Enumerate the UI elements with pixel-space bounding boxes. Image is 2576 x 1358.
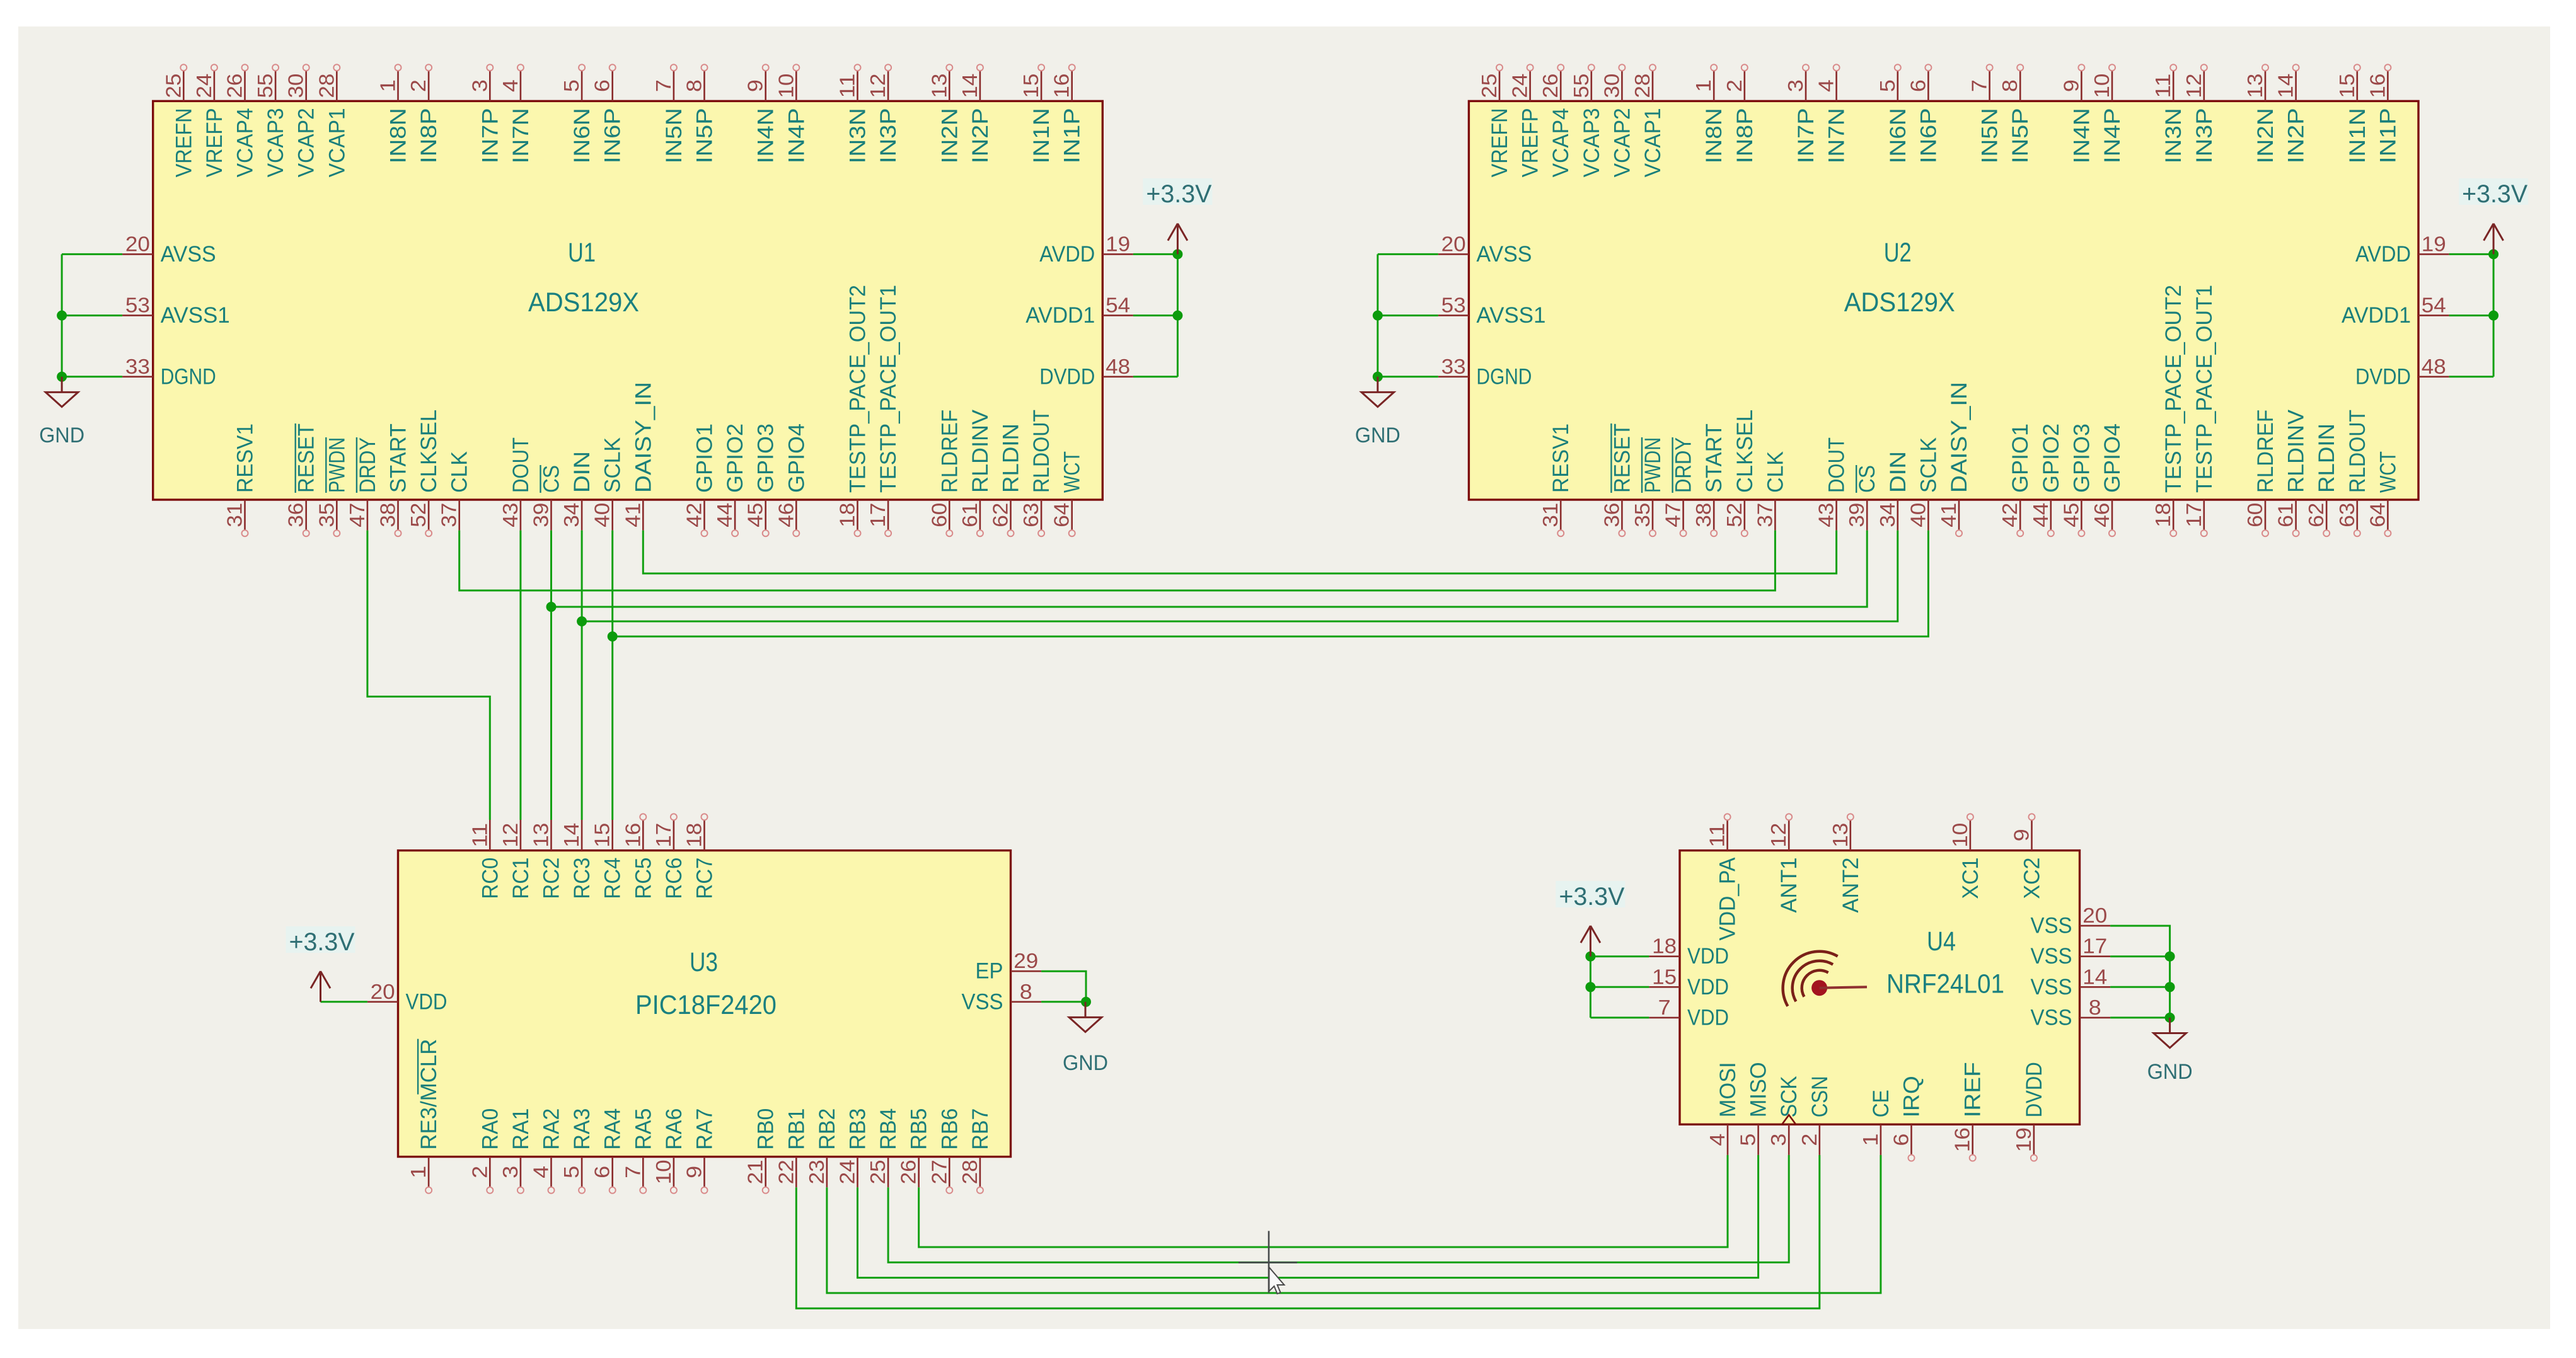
svg-text:10: 10 bbox=[1948, 823, 1972, 848]
svg-text:46: 46 bbox=[774, 503, 797, 527]
svg-text:SCLK: SCLK bbox=[1916, 437, 1941, 493]
svg-text:53: 53 bbox=[1441, 294, 1466, 317]
svg-text:17: 17 bbox=[866, 503, 889, 527]
svg-text:VREFP: VREFP bbox=[202, 108, 227, 177]
svg-text:RB6: RB6 bbox=[937, 1108, 962, 1150]
svg-text:2: 2 bbox=[1798, 1134, 1821, 1146]
svg-text:30: 30 bbox=[284, 74, 308, 98]
svg-text:RA3: RA3 bbox=[570, 1108, 594, 1150]
svg-text:63: 63 bbox=[1019, 503, 1043, 527]
svg-text:ANT1: ANT1 bbox=[1777, 858, 1801, 913]
svg-text:IN3P: IN3P bbox=[876, 108, 901, 163]
svg-text:6: 6 bbox=[1906, 79, 1929, 92]
svg-text:IN1P: IN1P bbox=[1060, 108, 1085, 163]
svg-text:PWDN: PWDN bbox=[325, 437, 349, 493]
svg-text:VCAP1: VCAP1 bbox=[1641, 108, 1665, 177]
svg-text:42: 42 bbox=[683, 503, 706, 527]
svg-text:TESTP_PACE_OUT1: TESTP_PACE_OUT1 bbox=[2192, 285, 2217, 493]
svg-text:40: 40 bbox=[591, 503, 614, 527]
svg-text:12: 12 bbox=[2182, 74, 2205, 98]
svg-text:XC2: XC2 bbox=[2020, 858, 2045, 899]
svg-text:VCAP3: VCAP3 bbox=[263, 108, 288, 177]
svg-text:U2: U2 bbox=[1884, 238, 1912, 268]
svg-text:RLDREF: RLDREF bbox=[937, 410, 962, 493]
svg-text:IN8N: IN8N bbox=[1702, 108, 1726, 163]
svg-text:3: 3 bbox=[468, 79, 491, 92]
svg-text:17: 17 bbox=[652, 823, 675, 848]
svg-text:62: 62 bbox=[2304, 503, 2328, 527]
svg-text:GPIO3: GPIO3 bbox=[2069, 423, 2094, 493]
svg-text:RA2: RA2 bbox=[540, 1108, 564, 1150]
svg-text:19: 19 bbox=[2012, 1127, 2035, 1152]
svg-text:IN8N: IN8N bbox=[386, 108, 411, 163]
svg-text:VDD: VDD bbox=[1687, 975, 1729, 999]
svg-text:IN1P: IN1P bbox=[2376, 108, 2400, 163]
svg-text:64: 64 bbox=[1050, 503, 1073, 527]
svg-text:2: 2 bbox=[1723, 79, 1746, 92]
svg-text:AVDD1: AVDD1 bbox=[2342, 303, 2411, 328]
svg-text:RLDREF: RLDREF bbox=[2253, 410, 2278, 493]
svg-text:10: 10 bbox=[652, 1159, 675, 1184]
svg-text:RA0: RA0 bbox=[478, 1108, 502, 1150]
svg-text:6: 6 bbox=[591, 79, 614, 92]
svg-text:GPIO2: GPIO2 bbox=[2039, 423, 2064, 493]
svg-text:24: 24 bbox=[192, 74, 216, 98]
svg-text:9: 9 bbox=[683, 1166, 706, 1178]
svg-text:42: 42 bbox=[1998, 503, 2021, 527]
svg-text:GND: GND bbox=[2147, 1060, 2193, 1084]
svg-text:54: 54 bbox=[1106, 294, 1130, 317]
svg-text:GPIO4: GPIO4 bbox=[2100, 423, 2125, 493]
svg-text:RESET: RESET bbox=[294, 423, 319, 493]
svg-text:GND: GND bbox=[39, 423, 84, 447]
svg-text:61: 61 bbox=[958, 503, 981, 527]
svg-text:RESV1: RESV1 bbox=[233, 423, 258, 493]
svg-text:31: 31 bbox=[1539, 503, 1562, 527]
svg-text:DVDD: DVDD bbox=[2022, 1062, 2047, 1117]
svg-text:26: 26 bbox=[1539, 74, 1562, 98]
svg-text:AVSS: AVSS bbox=[161, 242, 216, 267]
svg-text:VDD_PA: VDD_PA bbox=[1716, 857, 1740, 941]
svg-text:17: 17 bbox=[2082, 935, 2107, 958]
svg-text:17: 17 bbox=[2182, 503, 2205, 527]
svg-text:IN7P: IN7P bbox=[478, 108, 502, 163]
svg-text:DRDY: DRDY bbox=[355, 437, 380, 493]
svg-text:4: 4 bbox=[1706, 1134, 1729, 1146]
svg-text:8: 8 bbox=[1020, 980, 1032, 1003]
svg-text:19: 19 bbox=[1106, 232, 1130, 255]
svg-text:NRF24L01: NRF24L01 bbox=[1886, 969, 2004, 999]
svg-text:RE3/MCLR: RE3/MCLR bbox=[417, 1039, 441, 1150]
svg-text:11: 11 bbox=[2151, 74, 2175, 98]
svg-text:MOSI: MOSI bbox=[1716, 1062, 1740, 1117]
svg-text:45: 45 bbox=[2059, 503, 2082, 527]
svg-text:RB2: RB2 bbox=[815, 1108, 840, 1150]
svg-text:14: 14 bbox=[2082, 965, 2107, 988]
svg-text:4: 4 bbox=[499, 79, 522, 92]
svg-text:DOUT: DOUT bbox=[1825, 437, 1849, 493]
svg-text:26: 26 bbox=[223, 74, 246, 98]
svg-text:VDD: VDD bbox=[1687, 944, 1729, 969]
svg-text:GPIO3: GPIO3 bbox=[754, 423, 778, 493]
svg-text:CS: CS bbox=[540, 465, 564, 493]
svg-text:7: 7 bbox=[1968, 79, 1991, 92]
svg-text:41: 41 bbox=[1937, 503, 1960, 527]
svg-text:MISO: MISO bbox=[1747, 1062, 1771, 1117]
svg-text:DIN: DIN bbox=[570, 451, 594, 493]
svg-text:28: 28 bbox=[315, 74, 338, 98]
svg-text:24: 24 bbox=[836, 1159, 859, 1184]
svg-text:16: 16 bbox=[1050, 74, 1073, 98]
svg-text:XC1: XC1 bbox=[1958, 858, 1983, 899]
svg-text:RC5: RC5 bbox=[631, 858, 656, 899]
svg-text:PIC18F2420: PIC18F2420 bbox=[635, 990, 777, 1020]
svg-text:60: 60 bbox=[927, 503, 950, 527]
svg-text:CLK: CLK bbox=[448, 451, 472, 493]
svg-text:IN7P: IN7P bbox=[1794, 108, 1818, 163]
svg-text:IN8P: IN8P bbox=[1733, 108, 1757, 163]
svg-text:36: 36 bbox=[1600, 503, 1623, 527]
svg-text:RESET: RESET bbox=[1610, 423, 1634, 493]
svg-text:WCT: WCT bbox=[2376, 451, 2400, 493]
svg-text:61: 61 bbox=[2274, 503, 2297, 527]
svg-text:38: 38 bbox=[376, 503, 400, 527]
svg-text:RB0: RB0 bbox=[754, 1108, 778, 1150]
svg-text:ADS129X: ADS129X bbox=[528, 287, 639, 318]
svg-text:VREFP: VREFP bbox=[1518, 108, 1543, 177]
svg-text:18: 18 bbox=[683, 823, 706, 848]
svg-text:11: 11 bbox=[836, 74, 859, 98]
svg-text:28: 28 bbox=[958, 1159, 981, 1184]
svg-text:U3: U3 bbox=[690, 947, 718, 977]
svg-text:VSS: VSS bbox=[2031, 975, 2072, 999]
svg-text:IN4N: IN4N bbox=[2069, 108, 2094, 163]
svg-text:64: 64 bbox=[2365, 503, 2389, 527]
svg-text:1: 1 bbox=[1859, 1134, 1882, 1146]
svg-text:13: 13 bbox=[927, 74, 950, 98]
svg-text:+3.3V: +3.3V bbox=[1146, 180, 1211, 208]
svg-text:IN6N: IN6N bbox=[1886, 108, 1910, 163]
svg-text:6: 6 bbox=[591, 1166, 614, 1178]
svg-text:RA7: RA7 bbox=[693, 1108, 717, 1150]
svg-text:RESV1: RESV1 bbox=[1549, 423, 1573, 493]
svg-text:35: 35 bbox=[315, 503, 338, 527]
svg-text:RC3: RC3 bbox=[570, 858, 594, 899]
svg-text:ANT2: ANT2 bbox=[1839, 858, 1863, 913]
svg-text:16: 16 bbox=[2365, 74, 2389, 98]
svg-text:SCLK: SCLK bbox=[601, 437, 625, 493]
svg-text:40: 40 bbox=[1906, 503, 1929, 527]
svg-text:RLDIN: RLDIN bbox=[999, 423, 1024, 493]
svg-text:VDD: VDD bbox=[406, 989, 448, 1014]
svg-text:VCAP2: VCAP2 bbox=[1610, 108, 1634, 177]
svg-text:RA6: RA6 bbox=[662, 1108, 686, 1150]
svg-text:RB1: RB1 bbox=[784, 1108, 809, 1150]
svg-text:20: 20 bbox=[125, 232, 150, 255]
svg-text:VSS: VSS bbox=[2031, 944, 2072, 969]
svg-text:16: 16 bbox=[1951, 1127, 1974, 1152]
svg-text:DVDD: DVDD bbox=[1039, 364, 1095, 389]
svg-text:VCAP1: VCAP1 bbox=[325, 108, 349, 177]
svg-text:AVDD1: AVDD1 bbox=[1025, 303, 1095, 328]
svg-text:12: 12 bbox=[866, 74, 889, 98]
svg-text:IN7N: IN7N bbox=[509, 108, 533, 163]
svg-text:43: 43 bbox=[1815, 503, 1838, 527]
svg-text:IN6P: IN6P bbox=[601, 108, 625, 163]
svg-text:9: 9 bbox=[744, 79, 767, 92]
svg-text:37: 37 bbox=[1753, 503, 1776, 527]
svg-text:VREFN: VREFN bbox=[1487, 108, 1512, 177]
svg-text:19: 19 bbox=[2422, 232, 2446, 255]
svg-text:IN5P: IN5P bbox=[693, 108, 717, 163]
svg-text:RB7: RB7 bbox=[968, 1108, 993, 1150]
svg-text:GPIO1: GPIO1 bbox=[2008, 423, 2033, 493]
svg-text:13: 13 bbox=[529, 823, 553, 848]
svg-text:VCAP4: VCAP4 bbox=[233, 108, 258, 177]
svg-text:IN5N: IN5N bbox=[1978, 108, 2002, 163]
svg-text:RC7: RC7 bbox=[693, 858, 717, 899]
svg-text:VSS: VSS bbox=[2031, 914, 2072, 938]
svg-text:39: 39 bbox=[1845, 503, 1868, 527]
svg-text:CE: CE bbox=[1869, 1090, 1893, 1117]
svg-text:7: 7 bbox=[621, 1166, 644, 1178]
svg-text:ADS129X: ADS129X bbox=[1844, 287, 1955, 318]
svg-text:41: 41 bbox=[621, 503, 644, 527]
svg-text:PWDN: PWDN bbox=[1641, 437, 1665, 493]
svg-text:U4: U4 bbox=[1927, 926, 1956, 957]
svg-text:IN7N: IN7N bbox=[1825, 108, 1849, 163]
svg-text:7: 7 bbox=[1658, 996, 1671, 1019]
svg-text:DAISY_IN: DAISY_IN bbox=[1947, 382, 1972, 493]
svg-text:1: 1 bbox=[407, 1166, 430, 1178]
svg-text:IN4P: IN4P bbox=[784, 108, 809, 163]
svg-text:RC4: RC4 bbox=[601, 858, 625, 899]
svg-text:START: START bbox=[386, 423, 411, 493]
svg-text:VDD: VDD bbox=[1687, 1005, 1729, 1030]
svg-text:9: 9 bbox=[2059, 79, 2082, 92]
svg-text:34: 34 bbox=[1876, 503, 1899, 527]
svg-text:IN1N: IN1N bbox=[2345, 108, 2370, 163]
svg-text:31: 31 bbox=[223, 503, 246, 527]
svg-text:38: 38 bbox=[1692, 503, 1715, 527]
svg-text:RA4: RA4 bbox=[601, 1108, 625, 1150]
svg-text:GND: GND bbox=[1355, 423, 1401, 447]
svg-text:+3.3V: +3.3V bbox=[1559, 883, 1624, 911]
svg-text:RLDINV: RLDINV bbox=[2284, 409, 2309, 493]
svg-text:3: 3 bbox=[1784, 79, 1807, 92]
svg-text:10: 10 bbox=[2090, 74, 2113, 98]
svg-text:5: 5 bbox=[560, 79, 583, 92]
svg-text:4: 4 bbox=[1815, 79, 1838, 92]
svg-text:12: 12 bbox=[1767, 823, 1790, 848]
svg-text:8: 8 bbox=[2089, 996, 2101, 1019]
svg-text:RC1: RC1 bbox=[509, 858, 533, 899]
svg-text:52: 52 bbox=[1723, 503, 1746, 527]
svg-text:IN2P: IN2P bbox=[968, 108, 993, 163]
svg-text:62: 62 bbox=[989, 503, 1012, 527]
svg-text:GPIO2: GPIO2 bbox=[723, 423, 748, 493]
svg-text:55: 55 bbox=[1569, 74, 1593, 98]
svg-text:IN4N: IN4N bbox=[754, 108, 778, 163]
svg-text:5: 5 bbox=[1736, 1134, 1760, 1146]
svg-text:2: 2 bbox=[468, 1166, 491, 1178]
svg-text:TESTP_PACE_OUT1: TESTP_PACE_OUT1 bbox=[876, 285, 901, 493]
svg-text:11: 11 bbox=[468, 823, 491, 848]
svg-text:RB4: RB4 bbox=[876, 1108, 901, 1150]
svg-text:AVSS1: AVSS1 bbox=[1476, 303, 1545, 328]
svg-text:33: 33 bbox=[125, 355, 150, 378]
svg-text:9: 9 bbox=[2010, 829, 2033, 841]
svg-text:54: 54 bbox=[2422, 294, 2446, 317]
svg-text:U1: U1 bbox=[568, 238, 596, 268]
svg-text:48: 48 bbox=[2422, 355, 2446, 378]
svg-text:IN5P: IN5P bbox=[2008, 108, 2033, 163]
svg-text:36: 36 bbox=[284, 503, 308, 527]
svg-text:IN5N: IN5N bbox=[662, 108, 686, 163]
svg-text:RLDIN: RLDIN bbox=[2314, 423, 2339, 493]
svg-text:22: 22 bbox=[774, 1159, 797, 1184]
svg-text:12: 12 bbox=[499, 823, 522, 848]
svg-text:44: 44 bbox=[2029, 503, 2052, 527]
svg-text:33: 33 bbox=[1441, 355, 1466, 378]
svg-text:+3.3V: +3.3V bbox=[289, 928, 355, 956]
svg-text:21: 21 bbox=[744, 1159, 767, 1184]
svg-text:34: 34 bbox=[560, 503, 583, 527]
svg-text:VSS: VSS bbox=[2031, 1005, 2072, 1030]
svg-text:AVDD: AVDD bbox=[1039, 242, 1095, 267]
svg-text:CLK: CLK bbox=[1763, 451, 1788, 493]
svg-text:DGND: DGND bbox=[1476, 364, 1532, 389]
svg-text:RC6: RC6 bbox=[662, 858, 686, 899]
svg-text:8: 8 bbox=[1998, 79, 2021, 92]
svg-text:47: 47 bbox=[345, 503, 369, 527]
svg-text:15: 15 bbox=[1019, 74, 1043, 98]
svg-text:13: 13 bbox=[1828, 823, 1852, 848]
svg-text:6: 6 bbox=[1890, 1134, 1913, 1146]
svg-text:46: 46 bbox=[2090, 503, 2113, 527]
svg-text:7: 7 bbox=[652, 79, 675, 92]
svg-text:VCAP3: VCAP3 bbox=[1580, 108, 1604, 177]
svg-text:18: 18 bbox=[2151, 503, 2175, 527]
svg-text:16: 16 bbox=[621, 823, 644, 848]
svg-text:28: 28 bbox=[1631, 74, 1654, 98]
svg-text:44: 44 bbox=[713, 503, 736, 527]
svg-text:30: 30 bbox=[1600, 74, 1623, 98]
svg-text:WCT: WCT bbox=[1060, 451, 1085, 493]
svg-text:45: 45 bbox=[744, 503, 767, 527]
svg-text:DAISY_IN: DAISY_IN bbox=[631, 382, 656, 493]
svg-text:AVDD: AVDD bbox=[2355, 242, 2411, 267]
svg-text:AVSS: AVSS bbox=[1476, 242, 1532, 267]
svg-text:CS: CS bbox=[1855, 465, 1880, 493]
svg-text:25: 25 bbox=[866, 1159, 889, 1184]
svg-text:5: 5 bbox=[1876, 79, 1899, 92]
svg-text:13: 13 bbox=[2243, 74, 2267, 98]
svg-text:3: 3 bbox=[499, 1166, 522, 1178]
svg-text:AVSS1: AVSS1 bbox=[161, 303, 230, 328]
svg-text:IN6N: IN6N bbox=[570, 108, 594, 163]
svg-text:CLKSEL: CLKSEL bbox=[417, 410, 441, 493]
svg-text:RA5: RA5 bbox=[631, 1108, 656, 1150]
svg-text:52: 52 bbox=[407, 503, 430, 527]
svg-text:8: 8 bbox=[683, 79, 706, 92]
svg-text:VCAP4: VCAP4 bbox=[1549, 108, 1573, 177]
svg-text:IREF: IREF bbox=[1961, 1062, 1985, 1117]
svg-text:GPIO4: GPIO4 bbox=[784, 423, 809, 493]
svg-text:15: 15 bbox=[1652, 965, 1677, 988]
svg-text:DGND: DGND bbox=[161, 364, 216, 389]
svg-text:VREFN: VREFN bbox=[171, 108, 196, 177]
svg-text:RLDOUT: RLDOUT bbox=[1029, 410, 1054, 493]
svg-text:25: 25 bbox=[1477, 74, 1501, 98]
svg-text:IN2N: IN2N bbox=[937, 108, 962, 163]
svg-text:IN4P: IN4P bbox=[2100, 108, 2125, 163]
svg-text:25: 25 bbox=[161, 74, 185, 98]
svg-text:5: 5 bbox=[560, 1166, 583, 1178]
svg-text:TESTP_PACE_OUT2: TESTP_PACE_OUT2 bbox=[846, 285, 870, 493]
svg-text:48: 48 bbox=[1106, 355, 1130, 378]
svg-text:+3.3V: +3.3V bbox=[2462, 180, 2527, 208]
svg-text:20: 20 bbox=[2082, 904, 2107, 927]
svg-text:RC2: RC2 bbox=[540, 858, 564, 899]
svg-text:RLDINV: RLDINV bbox=[968, 409, 993, 493]
svg-text:20: 20 bbox=[371, 980, 395, 1003]
svg-text:RB5: RB5 bbox=[907, 1108, 932, 1150]
svg-text:DVDD: DVDD bbox=[2355, 364, 2411, 389]
svg-text:14: 14 bbox=[958, 74, 981, 98]
svg-text:3: 3 bbox=[1767, 1134, 1790, 1146]
svg-text:14: 14 bbox=[560, 823, 583, 848]
svg-text:24: 24 bbox=[1508, 74, 1532, 98]
svg-text:29: 29 bbox=[1014, 949, 1038, 972]
svg-text:43: 43 bbox=[499, 503, 522, 527]
svg-text:26: 26 bbox=[897, 1159, 920, 1184]
svg-text:15: 15 bbox=[591, 823, 614, 848]
svg-text:35: 35 bbox=[1631, 503, 1654, 527]
svg-text:DOUT: DOUT bbox=[509, 437, 533, 493]
svg-text:53: 53 bbox=[125, 294, 150, 317]
svg-text:GND: GND bbox=[1063, 1051, 1108, 1075]
svg-text:START: START bbox=[1702, 423, 1726, 493]
svg-text:IN8P: IN8P bbox=[417, 108, 441, 163]
svg-text:DIN: DIN bbox=[1886, 451, 1910, 493]
svg-text:37: 37 bbox=[437, 503, 461, 527]
svg-text:RC0: RC0 bbox=[478, 858, 502, 899]
svg-text:11: 11 bbox=[1706, 823, 1729, 848]
svg-text:TESTP_PACE_OUT2: TESTP_PACE_OUT2 bbox=[2161, 285, 2186, 493]
svg-text:VSS: VSS bbox=[962, 989, 1003, 1014]
svg-text:1: 1 bbox=[376, 79, 400, 92]
svg-text:1: 1 bbox=[1692, 79, 1715, 92]
svg-text:IRQ: IRQ bbox=[1900, 1076, 1924, 1117]
svg-text:RLDOUT: RLDOUT bbox=[2345, 410, 2370, 493]
svg-text:47: 47 bbox=[1661, 503, 1685, 527]
svg-text:10: 10 bbox=[774, 74, 797, 98]
svg-text:SCK: SCK bbox=[1777, 1076, 1801, 1117]
svg-text:RA1: RA1 bbox=[509, 1108, 533, 1150]
svg-text:CLKSEL: CLKSEL bbox=[1733, 410, 1757, 493]
svg-text:IN2P: IN2P bbox=[2284, 108, 2309, 163]
svg-text:55: 55 bbox=[253, 74, 277, 98]
svg-text:60: 60 bbox=[2243, 503, 2267, 527]
svg-text:63: 63 bbox=[2335, 503, 2359, 527]
svg-text:15: 15 bbox=[2335, 74, 2359, 98]
svg-text:39: 39 bbox=[529, 503, 553, 527]
svg-text:23: 23 bbox=[805, 1159, 828, 1184]
svg-text:IN3N: IN3N bbox=[2161, 108, 2186, 163]
svg-text:18: 18 bbox=[1652, 935, 1677, 958]
svg-text:RB3: RB3 bbox=[846, 1108, 870, 1150]
